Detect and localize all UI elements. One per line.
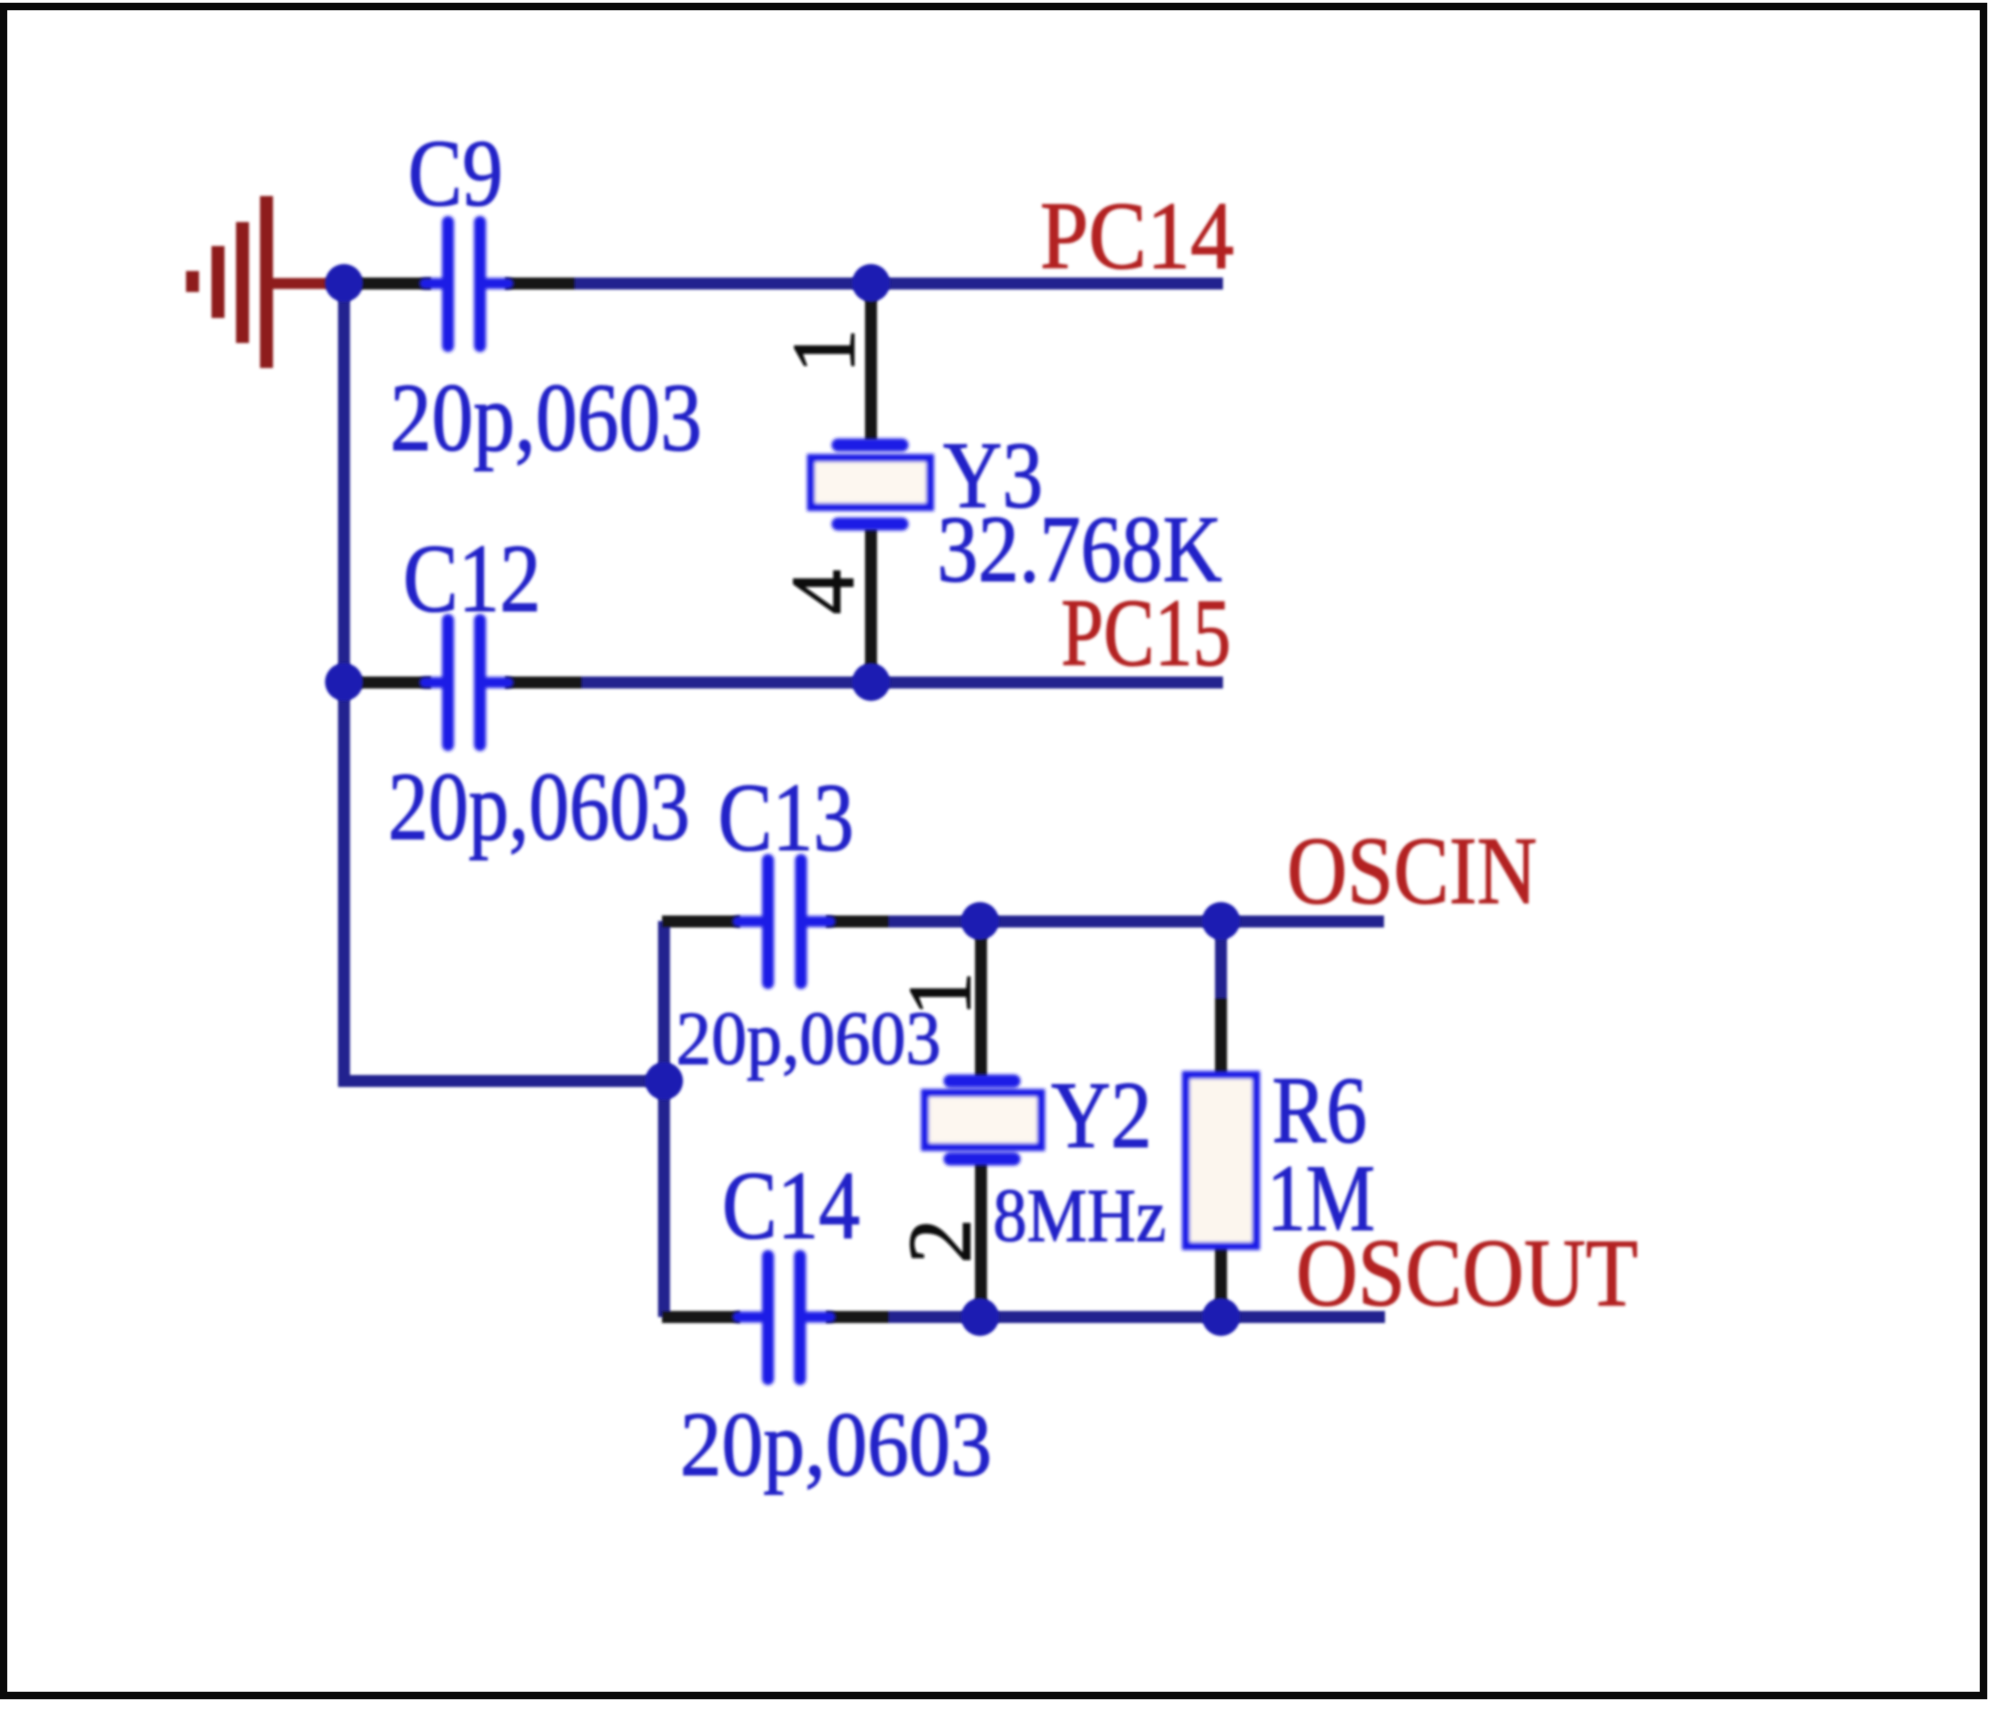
capacitor C14 (738, 1256, 830, 1379)
svg-text:1: 1 (891, 972, 990, 1017)
svg-text:OSCIN: OSCIN (1287, 817, 1537, 924)
svg-text:20p,0603: 20p,0603 (390, 364, 702, 471)
junction: C12 / Y3 pin 4 / PC15 node (852, 663, 890, 701)
wire PC14 black left (344, 278, 431, 290)
svg-text:8MHz: 8MHz (993, 1174, 1166, 1258)
svg-text:20p,0603: 20p,0603 (388, 753, 690, 860)
svg-text:OSCOUT: OSCOUT (1296, 1219, 1638, 1326)
junction: rail / C13 / C14 branch node (645, 1062, 683, 1100)
svg-text:C12: C12 (403, 525, 541, 632)
wire PC15 black left (344, 677, 431, 689)
ground (193, 196, 335, 368)
junction: C14 / Y2 pin 2 / OSCOUT node (961, 1298, 999, 1336)
wire Y2 bottom pin (975, 1162, 987, 1317)
wire PC14 navy (575, 278, 1223, 290)
junction: ground / C9 / rail node (325, 264, 363, 302)
svg-text:Y2: Y2 (1051, 1062, 1152, 1168)
wire PC14 black mid (505, 278, 578, 290)
crystal Y2 (925, 1081, 1041, 1159)
wire PC15 navy (582, 677, 1223, 689)
wire R6 top pin (1215, 998, 1227, 1078)
junction: R6 bottom / OSCOUT node (1202, 1298, 1240, 1336)
wire Y2 top pin (975, 921, 987, 1078)
wire OSCIN black left (662, 916, 740, 928)
svg-text:C9: C9 (408, 120, 503, 226)
svg-text:C13: C13 (718, 764, 854, 871)
svg-text:PC14: PC14 (1040, 182, 1234, 289)
left rail (344, 283, 664, 1081)
svg-text:4: 4 (774, 570, 873, 615)
wire Y3 top pin (865, 283, 877, 441)
capacitor C9 (425, 222, 508, 346)
mid vertical rail (658, 921, 670, 1317)
wire OSCOUT navy (889, 1311, 1385, 1323)
capacitor C13 (738, 860, 830, 983)
wire OSCIN navy (889, 916, 1384, 928)
wire Y3 bottom pin (865, 528, 877, 682)
capacitor C12 (425, 620, 508, 745)
wire OSCIN black mid (826, 916, 892, 928)
svg-text:PC15: PC15 (1061, 579, 1231, 686)
junction: C13 / Y2 pin 1 / OSCIN node (961, 902, 999, 940)
crystal Y3 (811, 445, 930, 524)
junction: C9 / Y3 pin 1 / PC14 node (852, 264, 890, 302)
junction: rail / C12 node (325, 663, 363, 701)
wire R6 bottom pin (1215, 1243, 1227, 1317)
svg-text:1: 1 (775, 329, 874, 374)
wire OSCOUT black left (662, 1311, 740, 1323)
svg-text:C14: C14 (722, 1152, 860, 1259)
junction: R6 top / OSCIN node (1202, 902, 1240, 940)
wire OSCOUT black mid (826, 1311, 892, 1323)
svg-text:2: 2 (891, 1219, 990, 1264)
wire PC15 black mid (505, 677, 585, 689)
resistor R6 (1186, 1075, 1256, 1246)
wire R6 top navy stub (1215, 921, 1227, 1002)
svg-text:20p,0603: 20p,0603 (680, 1393, 992, 1495)
